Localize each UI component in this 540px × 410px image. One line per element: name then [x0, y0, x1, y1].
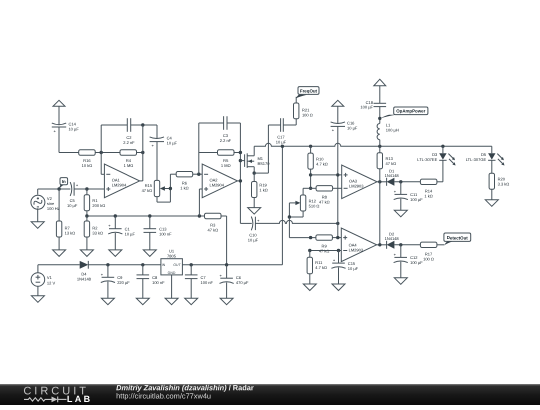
wire C14 to R16	[59, 127, 79, 153]
node OA2 output	[239, 179, 242, 182]
resistor R17	[420, 242, 444, 261]
capacitor C7	[185, 265, 213, 298]
svg-text:R5: R5	[223, 158, 228, 163]
flag DetectOut	[444, 233, 471, 245]
node R1/R2	[85, 214, 88, 217]
resistor R16	[79, 150, 96, 168]
svg-text:100 Ω: 100 Ω	[423, 257, 434, 262]
node output feedback top	[141, 123, 144, 126]
ground C6	[220, 298, 233, 305]
capacitor C15	[331, 251, 358, 285]
svg-text:L1: L1	[386, 123, 391, 128]
resistor R3	[205, 213, 227, 264]
diode D2	[385, 232, 399, 249]
svg-text:1 MΩ: 1 MΩ	[124, 163, 134, 168]
wire OA2 feedback riser	[198, 123, 200, 174]
svg-text:100 Hz: 100 Hz	[47, 207, 60, 212]
svg-text:+: +	[53, 129, 56, 134]
wire OA3 + row	[311, 174, 342, 176]
svg-text:D3: D3	[432, 152, 437, 157]
node gate tap	[239, 159, 242, 162]
svg-text:R21: R21	[302, 108, 310, 113]
ground U1	[165, 298, 178, 305]
wire OA4 output	[377, 244, 387, 246]
svg-text:R20: R20	[498, 177, 506, 182]
wire V1 to D4	[38, 264, 80, 266]
svg-text:V1: V1	[47, 276, 52, 281]
node R5/C3/gate	[239, 151, 242, 154]
node R9 left	[309, 236, 312, 239]
node R3/OA2+	[198, 214, 201, 217]
node 5V riser top	[281, 145, 284, 148]
resistor R11	[307, 251, 327, 285]
svg-text:In: In	[62, 179, 66, 184]
node signal/OA3 riser	[336, 222, 339, 225]
svg-text:510 Ω: 510 Ω	[309, 204, 320, 209]
ground C12	[394, 278, 407, 285]
node riser/OA4 out	[378, 243, 381, 246]
capacitor C2	[123, 118, 134, 145]
capacitor C5	[67, 182, 78, 208]
wire OA2 stubs	[199, 181, 240, 216]
wire C17 left lead	[268, 125, 280, 173]
svg-text:R8: R8	[322, 195, 327, 200]
wire C4 to R15	[156, 142, 158, 181]
wire OA3 - row left	[303, 187, 316, 189]
ground C15	[332, 284, 345, 291]
resistor R10	[308, 146, 328, 188]
svg-text:47 kΩ: 47 kΩ	[386, 162, 397, 167]
svg-text:OA2: OA2	[210, 178, 218, 183]
ground R2	[80, 250, 93, 257]
svg-text:C9: C9	[117, 276, 122, 281]
node L1/R13	[378, 145, 381, 148]
op-amp OA2	[202, 164, 237, 198]
wire L1 to rail	[379, 140, 381, 147]
svg-text:2.2 nF: 2.2 nF	[220, 139, 231, 144]
svg-text:12 V: 12 V	[47, 281, 56, 286]
wire R19 bottom	[253, 198, 255, 208]
ground C8	[136, 298, 149, 305]
wire 5V riser to opamp rail	[281, 146, 283, 264]
svg-text:LM2904: LM2904	[112, 183, 127, 188]
capacitor C6	[220, 265, 249, 298]
flag FreqOut	[296, 87, 319, 99]
wire C18 to L1	[379, 107, 381, 124]
node C11 top	[399, 180, 402, 183]
svg-text:R13: R13	[386, 157, 394, 162]
svg-text:4.7 kΩ: 4.7 kΩ	[316, 162, 328, 167]
svg-text:R3: R3	[210, 223, 215, 228]
wire R7 riser	[58, 189, 60, 221]
node R4 right	[141, 151, 144, 154]
svg-text:1 kΩ: 1 kΩ	[180, 186, 188, 191]
wire source node	[254, 172, 268, 174]
capacitor C14	[52, 122, 79, 134]
svg-text:D4: D4	[81, 272, 86, 277]
svg-text:+: +	[108, 224, 111, 229]
wire V2 to C5	[38, 188, 71, 190]
wire R19 top lead	[253, 173, 255, 181]
svg-text:10 µF: 10 µF	[68, 127, 78, 132]
power flag above C16	[332, 100, 344, 123]
wire R21 top	[295, 97, 297, 103]
node C15 top	[337, 249, 340, 252]
ground C11	[394, 210, 407, 217]
svg-text:D2: D2	[389, 232, 394, 237]
wire C17 to R21	[283, 119, 296, 125]
LED D5	[466, 152, 505, 165]
node OpAmpPower	[378, 117, 381, 120]
svg-text:1 kΩ: 1 kΩ	[424, 194, 432, 199]
node C13	[148, 214, 151, 217]
svg-text:R6: R6	[182, 181, 187, 186]
svg-text:10 µF: 10 µF	[348, 266, 358, 271]
resistor R19	[252, 182, 268, 198]
op-amp OA1	[104, 164, 139, 198]
svg-text:10 µF: 10 µF	[125, 232, 135, 237]
potentiometer R12	[288, 188, 320, 218]
node C1	[114, 214, 117, 217]
wire bias rail	[87, 215, 205, 217]
svg-text:R10: R10	[316, 157, 324, 162]
svg-text:+: +	[332, 128, 335, 133]
node C12 top	[399, 243, 402, 246]
logo resistor-diode glyph	[24, 397, 67, 403]
svg-text:DetectOut: DetectOut	[447, 235, 468, 240]
svg-text:D5: D5	[481, 152, 486, 157]
svg-text:+: +	[394, 253, 397, 258]
capacitor C11	[394, 182, 423, 211]
ground C9	[101, 298, 114, 305]
diode D1	[385, 169, 399, 186]
capacitor C17	[276, 118, 286, 144]
svg-text:13 kΩ: 13 kΩ	[65, 231, 76, 236]
capacitor C4	[150, 136, 177, 148]
node C16 riser on + row	[336, 173, 339, 176]
node C8	[141, 263, 144, 266]
svg-text:OUT: OUT	[173, 264, 181, 268]
node R10 bottom	[309, 187, 312, 190]
resistor R5	[218, 150, 235, 168]
svg-text:FreqOut: FreqOut	[300, 88, 317, 93]
svg-text:R19: R19	[259, 183, 267, 188]
svg-text:C12: C12	[410, 256, 418, 261]
wire opamp power rail with hops	[254, 143, 492, 146]
svg-text:V2: V2	[47, 197, 52, 202]
node R13 bottom	[378, 180, 381, 183]
svg-text:200 kΩ: 200 kΩ	[92, 204, 105, 209]
svg-text:220 µF: 220 µF	[117, 281, 130, 286]
resistor R21	[294, 103, 313, 119]
svg-text:C7: C7	[201, 276, 206, 281]
transistor M1 BS170	[245, 146, 270, 173]
svg-text:C18: C18	[366, 101, 374, 106]
wire R15 to R6	[170, 173, 176, 175]
svg-text:C17: C17	[277, 135, 285, 140]
wire C3 to OA2 output column	[227, 122, 240, 124]
wire R16 to R4	[95, 152, 120, 154]
svg-text:1N4148: 1N4148	[77, 277, 91, 282]
capacitor C10	[240, 217, 259, 243]
capacitor C16	[331, 121, 358, 132]
svg-text:R7: R7	[65, 226, 70, 231]
resistor R13	[377, 146, 396, 182]
inductor L1	[377, 123, 399, 140]
node R10/OA3+ row	[309, 173, 312, 176]
diode D4	[77, 261, 91, 282]
capacitor C18	[360, 101, 386, 110]
svg-text:LM2903: LM2903	[349, 184, 364, 189]
capacitor C13	[144, 216, 172, 250]
svg-text:LM2904: LM2904	[210, 183, 225, 188]
wire R6 to OA2 inverting input	[193, 173, 203, 175]
svg-text:R16: R16	[83, 158, 91, 163]
ground R11	[303, 284, 316, 291]
svg-text:C4: C4	[167, 136, 172, 141]
capacitor C3	[220, 116, 231, 143]
node R11 top	[308, 249, 311, 252]
ground C1	[109, 250, 122, 257]
wire D2 to R17	[394, 244, 420, 246]
ground C13	[143, 250, 156, 257]
capacitor C8	[137, 265, 165, 298]
svg-text:3.3 kΩ: 3.3 kΩ	[498, 182, 510, 187]
resistor R8	[316, 186, 342, 205]
wire to C2	[101, 124, 127, 126]
wire C16 riser down to OA3 and R9	[337, 126, 339, 237]
resistor R2	[84, 216, 103, 250]
svg-text:R11: R11	[315, 260, 322, 265]
voltage source V1	[31, 265, 55, 296]
svg-text:R2: R2	[92, 226, 97, 231]
wire shared pull-up riser	[379, 182, 381, 245]
svg-text:R15: R15	[145, 183, 153, 188]
node C7	[190, 263, 193, 266]
resistor R7	[56, 221, 75, 250]
svg-text:100 nF: 100 nF	[201, 281, 214, 286]
svg-text:C2: C2	[126, 136, 131, 141]
wire gate tap	[240, 160, 244, 162]
svg-text:10 kΩ: 10 kΩ	[82, 163, 93, 168]
svg-text:100 µF: 100 µF	[360, 105, 373, 110]
ground V2	[31, 222, 44, 229]
svg-text:C8: C8	[152, 276, 157, 281]
svg-text:+: +	[394, 190, 397, 195]
svg-text:IN: IN	[162, 264, 166, 268]
flag In	[59, 178, 68, 189]
svg-text:R9: R9	[322, 244, 327, 249]
wire signal row with hops	[255, 220, 337, 223]
ground R7	[53, 250, 66, 257]
svg-text:2.2 nF: 2.2 nF	[123, 141, 134, 146]
svg-text:7805: 7805	[167, 254, 176, 259]
svg-text:LM2903: LM2903	[349, 248, 364, 253]
flag OpAmpPower	[380, 107, 428, 119]
svg-text:D1: D1	[389, 169, 394, 174]
svg-text:+: +	[101, 272, 104, 277]
wire C2 to C4	[131, 124, 157, 126]
svg-text:R1: R1	[92, 199, 97, 204]
wire OA2 output riser	[239, 123, 241, 223]
svg-text:C3: C3	[223, 134, 228, 139]
capacitor C12	[394, 245, 423, 278]
svg-text:+: +	[76, 183, 79, 188]
svg-text:R14: R14	[425, 189, 433, 194]
svg-text:+: +	[257, 218, 260, 223]
node C9	[106, 263, 109, 266]
svg-text:10 µF: 10 µF	[347, 126, 357, 131]
wire R5 right lead	[234, 152, 240, 154]
svg-text:OA1: OA1	[112, 178, 120, 183]
resistor R14	[420, 179, 443, 198]
svg-text:LAB: LAB	[67, 394, 93, 404]
ground C7	[185, 298, 198, 305]
svg-text:47 kΩ: 47 kΩ	[319, 249, 330, 254]
svg-text:100 nF: 100 nF	[159, 232, 172, 237]
svg-text:R17: R17	[425, 252, 433, 257]
svg-text:sine: sine	[47, 202, 55, 207]
node R10 top	[309, 145, 312, 148]
R5 row left lead	[199, 152, 218, 154]
voltage source V2	[31, 189, 60, 222]
LED D3	[417, 146, 455, 165]
svg-text:OA4: OA4	[349, 243, 357, 248]
footer bar	[0, 384, 540, 405]
svg-text:47 kΩ: 47 kΩ	[208, 228, 219, 233]
svg-text:+: +	[151, 144, 154, 149]
node M1 source	[253, 171, 256, 174]
svg-text:4.7 kΩ: 4.7 kΩ	[315, 265, 327, 270]
svg-text:100 µF: 100 µF	[410, 198, 423, 203]
svg-text:C5: C5	[70, 199, 75, 204]
wire D1 to R14	[394, 181, 420, 183]
svg-text:U1: U1	[169, 249, 174, 254]
svg-text:10 µF: 10 µF	[276, 140, 286, 145]
ground R20	[485, 200, 498, 207]
svg-text:33 kΩ: 33 kΩ	[92, 231, 103, 236]
svg-text:47 kΩ: 47 kΩ	[142, 188, 153, 193]
node R1 top	[85, 187, 88, 190]
power flag above C14	[53, 100, 65, 124]
resistor R9	[316, 235, 341, 254]
svg-text:C15: C15	[348, 261, 356, 266]
svg-text:R4: R4	[126, 158, 131, 163]
node R16/R4/feedback	[100, 151, 103, 154]
svg-text:1N4148: 1N4148	[385, 237, 399, 242]
svg-text:100 µF: 100 µF	[410, 261, 423, 266]
resistor R4	[120, 150, 137, 168]
svg-text:GND: GND	[168, 271, 176, 275]
svg-text:+: +	[220, 273, 223, 278]
wire U1 OUT rail	[182, 264, 282, 266]
wire OA1 output riser	[142, 125, 144, 181]
ground V1	[31, 296, 44, 303]
svg-text:100 Ω: 100 Ω	[302, 113, 313, 118]
regulator U1 7805	[161, 249, 183, 298]
wire C5 to OA1 +	[74, 188, 87, 190]
svg-text:OA3: OA3	[349, 179, 357, 184]
node OA2 inverting	[197, 173, 200, 176]
svg-text:R12: R12	[309, 199, 317, 204]
svg-text:10 µF: 10 µF	[167, 141, 177, 146]
svg-text:OpAmpPower: OpAmpPower	[396, 109, 425, 114]
resistor R1	[84, 189, 105, 216]
wire R14 riser to D3	[442, 160, 444, 181]
svg-text:BS170: BS170	[257, 162, 269, 167]
svg-text:C10: C10	[249, 233, 257, 238]
svg-text:C11: C11	[410, 193, 417, 198]
potentiometer R15	[142, 174, 173, 202]
svg-text:1 kΩ: 1 kΩ	[259, 188, 267, 193]
svg-text:+: +	[333, 258, 336, 263]
ground above C18	[374, 79, 386, 103]
svg-text:C16: C16	[347, 121, 355, 126]
wire OA3 output	[377, 181, 387, 183]
wire OA1 input stubs	[87, 174, 143, 189]
wire C4 top lead	[156, 125, 158, 138]
wire R12 wiper down to R9 row	[289, 217, 316, 238]
svg-text:100 µH: 100 µH	[386, 128, 399, 133]
svg-text:C13: C13	[159, 227, 167, 232]
node D3 top	[441, 145, 444, 148]
svg-text:100 nF: 100 nF	[152, 281, 165, 286]
wire R4 right lead	[137, 152, 143, 154]
node In	[57, 187, 60, 190]
op-amp OA3	[342, 165, 377, 199]
capacitor C9	[101, 265, 130, 298]
svg-text:1 MΩ: 1 MΩ	[221, 163, 231, 168]
svg-text:1N4148: 1N4148	[385, 174, 399, 179]
svg-text:47 kΩ: 47 kΩ	[319, 200, 330, 205]
ground R19	[248, 208, 261, 215]
op-amp OA4	[341, 228, 376, 262]
wire D4 to U1	[88, 264, 161, 266]
svg-text:C1: C1	[125, 227, 130, 232]
resistor R6	[176, 172, 193, 191]
svg-text:C14: C14	[68, 122, 76, 127]
capacitor C1	[108, 216, 135, 250]
svg-text:10 µF: 10 µF	[67, 204, 77, 209]
wire rail corner to D5	[491, 146, 493, 153]
wire OA4 - row	[310, 250, 342, 252]
node R9 right/signal	[336, 236, 339, 239]
resistor R20	[489, 160, 509, 199]
svg-text:LTL-307EE: LTL-307EE	[417, 157, 437, 162]
svg-text:LTL-307GE: LTL-307GE	[466, 157, 486, 162]
wire to C3	[199, 122, 224, 124]
svg-text:10 µF: 10 µF	[248, 238, 258, 243]
node C6/R3	[225, 263, 228, 266]
svg-text:C6: C6	[236, 276, 241, 281]
svg-text:M1: M1	[257, 157, 263, 162]
svg-text:470 µF: 470 µF	[236, 281, 249, 286]
wire OA1 inverting feedback riser	[100, 125, 102, 174]
svg-text:http://circuitlab.com/c77xw4u: http://circuitlab.com/c77xw4u	[116, 391, 211, 400]
